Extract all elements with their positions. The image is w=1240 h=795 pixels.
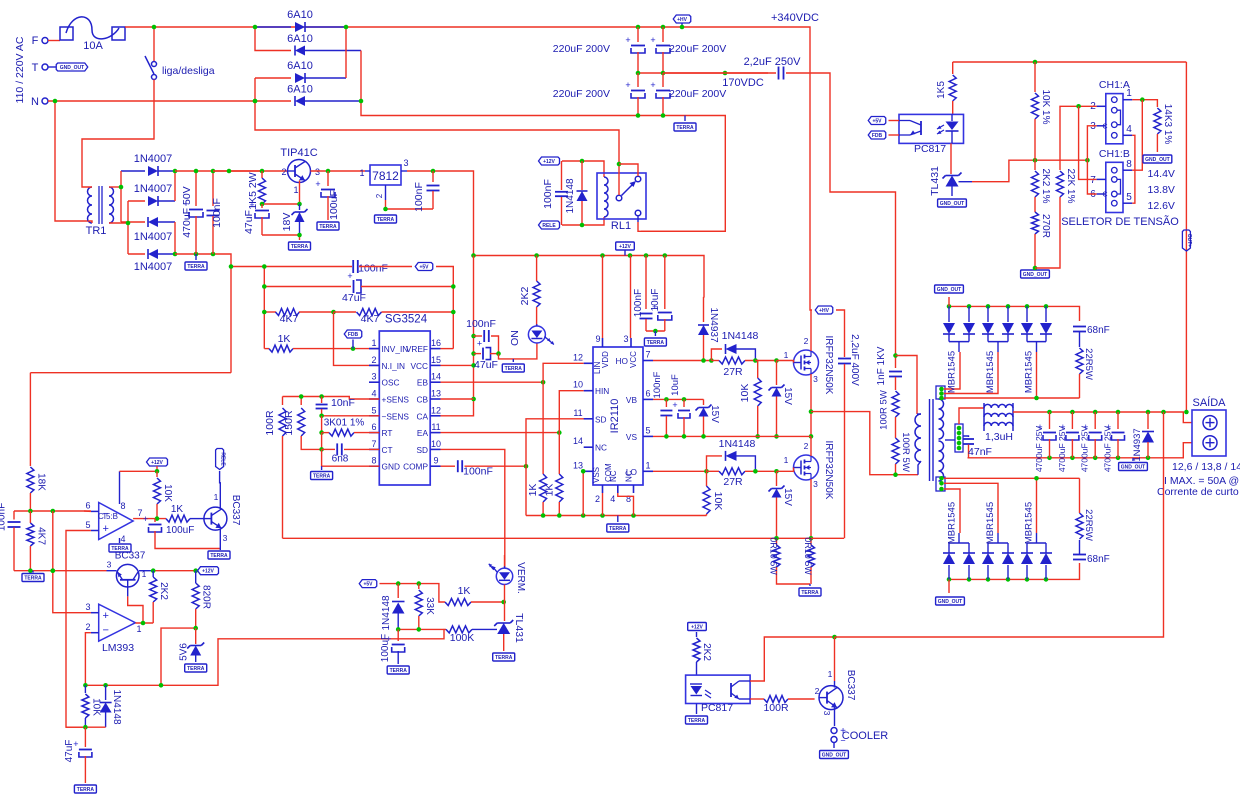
svg-text:GND_OUT: GND_OUT	[822, 753, 846, 759]
svg-text:12: 12	[431, 405, 441, 415]
svg-text:10: 10	[573, 380, 583, 390]
svg-text:MBR1545: MBR1545	[1024, 351, 1035, 393]
wire 7812 out	[407, 171, 474, 256]
resistor R9 1K a	[542, 382, 544, 474]
svg-text:GND_OUT: GND_OUT	[1121, 465, 1145, 471]
svg-text:MBR1545: MBR1545	[985, 351, 996, 393]
wire Q2 drain	[810, 310, 812, 351]
svg-text:100nF: 100nF	[652, 371, 663, 398]
capacitor C1 220uF 200V	[637, 27, 639, 42]
svg-text:1: 1	[214, 492, 219, 502]
tag GND_OUT 14k3	[1143, 155, 1172, 163]
wire cooler led gnd	[696, 704, 698, 715]
svg-text:+: +	[650, 80, 655, 90]
capacitor C7 100nF	[212, 171, 214, 206]
resistor R33 10K lm	[84, 685, 86, 693]
resistor R8 3K01 1%	[321, 416, 323, 433]
wire +12V ci5 rail	[120, 466, 158, 471]
svg-text:14: 14	[573, 436, 583, 446]
svg-text:8: 8	[626, 494, 631, 504]
capacitor C19 100nF vdd	[645, 256, 647, 310]
resistor R37 2K2 cooler	[696, 632, 698, 637]
wire IR SD col	[526, 419, 592, 516]
wire lm393 out	[135, 622, 153, 624]
svg-text:TL431: TL431	[513, 613, 525, 643]
tag TERRA 7812	[375, 215, 397, 223]
resistor R16 0R10 5W b	[810, 538, 812, 545]
svg-text:RELE: RELE	[219, 452, 225, 466]
svg-text:47uF: 47uF	[243, 210, 255, 234]
svg-text:14.4V: 14.4V	[1148, 168, 1175, 180]
svg-text:VB: VB	[626, 395, 638, 405]
relay RL1	[597, 173, 646, 219]
wire aux + rail	[175, 170, 262, 172]
wire bc337c collector	[834, 681, 836, 688]
wire COMP row	[441, 465, 456, 467]
wire -SENS pin5	[322, 415, 380, 417]
svg-text:+: +	[347, 271, 352, 281]
svg-text:+HV: +HV	[677, 17, 688, 23]
svg-text:22R5W: 22R5W	[1083, 348, 1094, 380]
opamp U8 LM393	[99, 604, 136, 641]
zener D18 5V6	[195, 628, 197, 644]
wire 7812 gnd	[385, 185, 387, 200]
wire pin6	[84, 510, 91, 512]
svg-text:NC: NC	[625, 470, 634, 482]
wire CB pin13	[441, 398, 474, 400]
tag +12V cooler	[688, 623, 707, 631]
wire HO row	[653, 360, 711, 362]
wire output + rail	[1013, 412, 1192, 423]
wire pc817c collector	[750, 637, 834, 681]
wire verm to tl431	[504, 585, 506, 622]
svg-text:CH1:A: CH1:A	[1099, 79, 1130, 91]
svg-text:+: +	[672, 400, 677, 410]
optocoupler U10 PC817 cooler	[686, 675, 751, 703]
wire bc337l collector row	[139, 570, 153, 572]
svg-text:IRFP32N50K: IRFP32N50K	[823, 441, 834, 500]
svg-text:10K 1%: 10K 1%	[1040, 89, 1051, 124]
diode D20 1N4148 tl	[397, 584, 399, 598]
resistor R3 4K7 b	[334, 311, 357, 313]
wire aux rail to TIP41C	[213, 170, 288, 172]
svg-text:GND_OUT: GND_OUT	[940, 201, 964, 207]
svg-text:liga/desliga: liga/desliga	[162, 65, 215, 77]
capacitor C8 47uF	[261, 204, 263, 208]
svg-text:SD: SD	[595, 414, 607, 424]
svg-text:INV_IN: INV_IN	[382, 344, 409, 354]
capacitor C15 47uF vcc	[474, 353, 481, 355]
svg-text:VDD: VDD	[601, 351, 610, 368]
svg-text:10K: 10K	[162, 484, 173, 502]
svg-text:2: 2	[595, 494, 600, 504]
svg-text:3: 3	[315, 167, 320, 177]
transformer T2 secondary	[939, 399, 944, 439]
svg-text:MBR1545: MBR1545	[985, 502, 996, 544]
flag +5V tl431	[359, 580, 377, 588]
terminal F	[42, 38, 48, 44]
svg-text:IRFP32N50K: IRFP32N50K	[823, 336, 834, 395]
tag GND_OUT out	[1132, 458, 1134, 461]
svg-text:4K7: 4K7	[361, 313, 380, 325]
svg-text:100nF: 100nF	[358, 263, 388, 275]
tag GND_OUT cooler	[820, 751, 849, 759]
svg-text:9: 9	[433, 456, 438, 466]
svg-text:33K: 33K	[424, 597, 435, 615]
svg-text:TERRA: TERRA	[377, 217, 395, 223]
IR2110 top pins	[602, 338, 604, 347]
wire pc817c emitter to 100R	[750, 698, 764, 700]
svg-text:27R: 27R	[723, 476, 743, 488]
svg-text:VCC: VCC	[629, 351, 638, 368]
diode D4 6A10	[255, 100, 291, 102]
svg-text:13.8V: 13.8V	[1148, 184, 1175, 196]
PC817 cooler LED	[690, 683, 702, 685]
svg-text:4700uF 25V: 4700uF 25V	[1080, 426, 1090, 473]
svg-text:15: 15	[431, 355, 441, 365]
svg-text:100nF: 100nF	[413, 182, 425, 212]
svg-text:27R: 27R	[723, 366, 743, 378]
connector SAIDA	[1192, 410, 1226, 456]
IR2110 bottom pins	[602, 485, 604, 493]
capacitor C34 47uF lm	[84, 727, 86, 747]
PC817 top transistor	[920, 121, 922, 135]
wire primary bottom	[918, 461, 921, 475]
diode pair MBR1545 bottom 1	[948, 565, 950, 579]
tag +12V rail	[616, 242, 635, 250]
svg-text:2K2: 2K2	[701, 643, 712, 661]
svg-text:220uF 200V: 220uF 200V	[669, 88, 726, 100]
svg-text:2: 2	[371, 355, 376, 365]
svg-text:110 / 220V AC: 110 / 220V AC	[14, 36, 26, 103]
zener D14 15V vb	[703, 399, 705, 405]
wire +5V to VREF col	[436, 267, 453, 349]
svg-text:TERRA: TERRA	[77, 787, 95, 793]
svg-text:100R: 100R	[264, 410, 276, 436]
wire gnd_out bottom rail	[949, 563, 1080, 579]
svg-text:TERRA: TERRA	[291, 244, 309, 250]
svg-text:10: 10	[431, 439, 441, 449]
svg-text:TIP41C: TIP41C	[280, 147, 317, 159]
resistor R10 1K b	[558, 433, 560, 474]
svg-text:2: 2	[815, 686, 820, 696]
flag +12V bc337l	[198, 567, 219, 575]
svg-text:10nF: 10nF	[331, 397, 355, 409]
wire relay common from AC	[618, 164, 620, 195]
svg-text:+12V: +12V	[543, 159, 555, 165]
svg-text:15V: 15V	[782, 387, 793, 405]
tag GND_OUT divider	[1021, 270, 1050, 278]
wire +5v row	[380, 584, 446, 602]
svg-text:100uF: 100uF	[380, 634, 391, 662]
wire GND pin8 TERRA	[322, 449, 380, 466]
tag GND_OUT at T	[48, 66, 56, 68]
wire bottom row 727	[66, 726, 106, 728]
svg-text:5V6: 5V6	[179, 643, 190, 661]
resistor R15 0R10 5W a	[776, 538, 778, 545]
svg-text:1N4148: 1N4148	[565, 178, 576, 213]
switch liga/desliga	[153, 27, 155, 61]
wire aux bridge right cols	[174, 171, 176, 201]
tag TERRA 100uF tl	[387, 666, 409, 674]
svg-text:15V: 15V	[709, 405, 720, 423]
wire VB row	[653, 398, 704, 400]
tag TERRA 5v6	[185, 664, 207, 672]
tag GND_OUT top	[948, 297, 950, 306]
wire zener bottom	[262, 235, 300, 240]
svg-text:6: 6	[85, 501, 90, 511]
svg-text:TERRA: TERRA	[319, 224, 337, 230]
transistor Q6 BC337 cooler	[819, 686, 843, 710]
wire Q3 drain	[810, 436, 812, 456]
capacitor C210 4700uF 25V	[1094, 412, 1096, 429]
svg-text:1K: 1K	[544, 484, 556, 497]
wire 18K top row	[30, 372, 231, 374]
svg-text:+: +	[477, 339, 482, 349]
svg-text:+5V: +5V	[363, 581, 373, 587]
svg-text:+: +	[625, 80, 630, 90]
capacitor C4 220uF 200V	[662, 73, 664, 87]
resistor R27 18K	[29, 373, 31, 466]
diode D3 6A10	[255, 77, 291, 79]
wire relay NO contact	[619, 164, 638, 176]
capacitor C211 4700uF 25V	[1117, 412, 1119, 429]
inductor L1 1,3uH	[959, 408, 984, 424]
wire ch1a pin2	[1060, 106, 1097, 108]
svg-text:F: F	[32, 35, 39, 47]
svg-text:−SENS: −SENS	[382, 411, 410, 421]
wire bc337l base path	[127, 587, 129, 596]
svg-text:1N4148: 1N4148	[111, 689, 122, 724]
capacitor C27 47nF	[963, 436, 969, 437]
opamp U7 CI5:B	[99, 503, 133, 540]
wire VREF pin16	[441, 348, 454, 350]
svg-text:68nF: 68nF	[1087, 325, 1110, 336]
svg-text:820R: 820R	[201, 585, 212, 609]
wire led return	[499, 343, 537, 359]
svg-text:8: 8	[1126, 159, 1132, 170]
tag TERRA ci5	[109, 544, 131, 552]
svg-text:TERRA: TERRA	[210, 553, 228, 559]
svg-text:CI5:B: CI5:B	[98, 512, 118, 521]
svg-text:3: 3	[822, 711, 832, 716]
flag +HV mosfet	[815, 306, 833, 314]
tag TERRA shunt	[809, 584, 811, 586]
diode D12 1N4148 high	[711, 349, 722, 361]
diode D7 1N4007	[121, 221, 145, 223]
svg-text:CA: CA	[416, 411, 428, 421]
svg-text:2: 2	[804, 336, 809, 346]
fuse F1 10A	[60, 27, 73, 40]
svg-text:+12V: +12V	[202, 569, 214, 575]
resistor R20 22R5W bottom	[1076, 513, 1083, 539]
svg-text:MBR1545: MBR1545	[1024, 502, 1035, 544]
svg-text:10uF: 10uF	[650, 289, 661, 312]
terminal cooler -	[831, 737, 837, 743]
svg-text:NC: NC	[609, 470, 618, 482]
resistor R5 2K2 led	[536, 256, 538, 282]
svg-text:1: 1	[645, 460, 650, 470]
tag TERRA aux	[195, 254, 197, 260]
flag RELE	[539, 221, 560, 229]
svg-text:100R 5W: 100R 5W	[879, 390, 890, 430]
wire source gnd rail	[283, 537, 845, 539]
svg-text:+12V: +12V	[619, 244, 631, 250]
svg-text:7: 7	[645, 350, 650, 360]
tag GND_OUT bottom	[948, 579, 950, 593]
svg-text:100nF: 100nF	[0, 503, 8, 531]
svg-text:VSS: VSS	[592, 467, 601, 483]
svg-text:SG3524: SG3524	[385, 314, 428, 326]
svg-text:T: T	[32, 62, 39, 74]
svg-text:5: 5	[371, 405, 376, 415]
resistor R36 100K	[446, 626, 472, 633]
svg-text:CH1:B: CH1:B	[1099, 148, 1130, 160]
wire fuse to junction	[125, 26, 154, 28]
wire ch1a pin4 to ch1b pin5	[1132, 135, 1135, 203]
svg-text:1: 1	[359, 168, 364, 178]
svg-text:C: C	[1102, 124, 1107, 131]
svg-text:TERRA: TERRA	[609, 526, 627, 532]
svg-text:TERRA: TERRA	[187, 666, 205, 672]
tag TERRA 100uF	[317, 222, 339, 230]
wire bc337l emitter row	[107, 570, 117, 572]
tap junction box	[955, 424, 963, 452]
capacitor C23 10uF vb	[683, 399, 685, 407]
wire TIP41C emitter	[299, 181, 301, 205]
wire tl431l anode	[503, 634, 505, 651]
svg-text:N.I_IN: N.I_IN	[382, 361, 406, 371]
optocoupler U5 PC817 top	[899, 114, 964, 143]
resistor R31 2K2 lower	[152, 571, 154, 577]
svg-text:11: 11	[573, 408, 582, 418]
tag TERRA bc337u	[219, 549, 221, 551]
resistor R4 1K	[264, 348, 269, 350]
svg-text:+5V: +5V	[872, 118, 882, 124]
resistor R1 1K5 2W	[261, 171, 263, 178]
svg-text:1: 1	[371, 338, 376, 348]
svg-text:Corrente de curto = 75: Corrente de curto = 75	[1157, 486, 1240, 498]
svg-text:4700uF 25V: 4700uF 25V	[1103, 426, 1113, 473]
svg-text:100nF: 100nF	[542, 179, 554, 209]
transformer T2 primary	[915, 414, 921, 462]
svg-text:TERRA: TERRA	[505, 366, 523, 372]
wire N to TR1	[55, 101, 88, 221]
diode pair MBR1545 top 3	[1026, 306, 1028, 322]
svg-text:5: 5	[85, 520, 90, 530]
capacitor C26 68nF bottom	[1073, 554, 1086, 556]
wire TIP41C out	[311, 170, 366, 172]
svg-text:2: 2	[85, 622, 90, 632]
diode pair MBR1545 bottom 2	[987, 565, 989, 579]
capacitor C14 100nF vcc	[474, 335, 482, 337]
svg-text:6A10: 6A10	[287, 33, 313, 45]
svg-text:10uF: 10uF	[670, 374, 681, 396]
svg-text:6n8: 6n8	[332, 454, 349, 465]
svg-text:3K01 1%: 3K01 1%	[324, 418, 365, 429]
svg-text:FDB: FDB	[348, 332, 359, 338]
svg-text:100nF: 100nF	[466, 318, 496, 330]
svg-text:1N4007: 1N4007	[134, 183, 173, 195]
resistor R38 100R	[764, 696, 788, 703]
flag +5V	[359, 266, 412, 268]
T2 top tap box	[936, 386, 945, 399]
zener D9 18V	[299, 204, 301, 210]
svg-text:100K: 100K	[450, 632, 475, 644]
svg-text:RT: RT	[382, 428, 393, 438]
svg-text:470uF 50V: 470uF 50V	[181, 186, 193, 237]
wire base row 570	[14, 570, 107, 572]
svg-text:TERRA: TERRA	[688, 718, 706, 724]
resistor R21 1K5	[952, 62, 954, 74]
svg-text:TL431: TL431	[929, 166, 941, 196]
svg-text:3: 3	[371, 372, 376, 382]
svg-text:+12V: +12V	[691, 625, 703, 631]
svg-text:+: +	[249, 200, 254, 210]
wire junction row 685	[85, 629, 444, 685]
wire +5V from aux	[231, 266, 352, 268]
capacitor C16 10nF	[321, 397, 323, 404]
transistor Q1 TIP41C	[288, 160, 311, 183]
wire switch to TR1	[82, 80, 154, 183]
flag +5V pc817	[868, 117, 886, 125]
svg-text:100uF: 100uF	[328, 190, 340, 220]
terminal cooler +	[831, 728, 837, 734]
svg-text:2: 2	[375, 193, 384, 198]
flag RELE bc337	[216, 449, 224, 470]
svg-text:+5V: +5V	[419, 264, 429, 270]
svg-text:SD: SD	[416, 445, 428, 455]
svg-text:14K3 1%: 14K3 1%	[1162, 104, 1173, 145]
svg-text:SAÍDA: SAÍDA	[1192, 396, 1226, 409]
TL431 U6	[946, 176, 959, 187]
capacitor C17 6n8	[321, 433, 323, 450]
wire relay bottom	[562, 217, 604, 225]
svg-text:22R5W: 22R5W	[1083, 509, 1094, 541]
diode D15 1N4148 low	[707, 456, 723, 471]
wire Q3 source	[810, 479, 812, 538]
svg-text:100uF: 100uF	[166, 525, 194, 536]
wire tap row to 22R	[944, 477, 1080, 479]
wire +SENS pin4	[283, 397, 380, 400]
wire aux - rail	[175, 254, 231, 373]
wire HIN col	[559, 391, 583, 433]
svg-text:PC817: PC817	[914, 143, 946, 155]
regulator U2 7812	[370, 165, 401, 185]
svg-text:+340VDC: +340VDC	[771, 12, 819, 24]
wire gnd_out top rail	[949, 306, 1080, 321]
capacitor C32 100nF fb	[13, 511, 15, 520]
svg-text:LM393: LM393	[102, 642, 134, 654]
wire relay out	[637, 216, 639, 222]
wire primary top	[896, 356, 918, 415]
wire bc337u emitter	[219, 529, 221, 549]
svg-text:12,6 / 13,8 / 14,4V: 12,6 / 13,8 / 14,4V	[1172, 461, 1240, 473]
svg-text:10A: 10A	[83, 40, 103, 52]
svg-text:CT: CT	[382, 445, 393, 455]
resistor R24 270R	[1032, 212, 1039, 234]
tag TERRA led	[512, 359, 514, 362]
flag +12V ci5	[147, 458, 168, 466]
wire Q2 source	[810, 374, 812, 436]
svg-text:1N4007: 1N4007	[134, 231, 173, 243]
svg-text:+: +	[102, 610, 108, 622]
svg-text:15V: 15V	[782, 488, 793, 506]
wire VS to snubber	[811, 412, 918, 475]
wire bridge + column	[345, 27, 347, 78]
wire output row ci5	[133, 518, 166, 520]
svg-text:270R: 270R	[1040, 214, 1051, 238]
